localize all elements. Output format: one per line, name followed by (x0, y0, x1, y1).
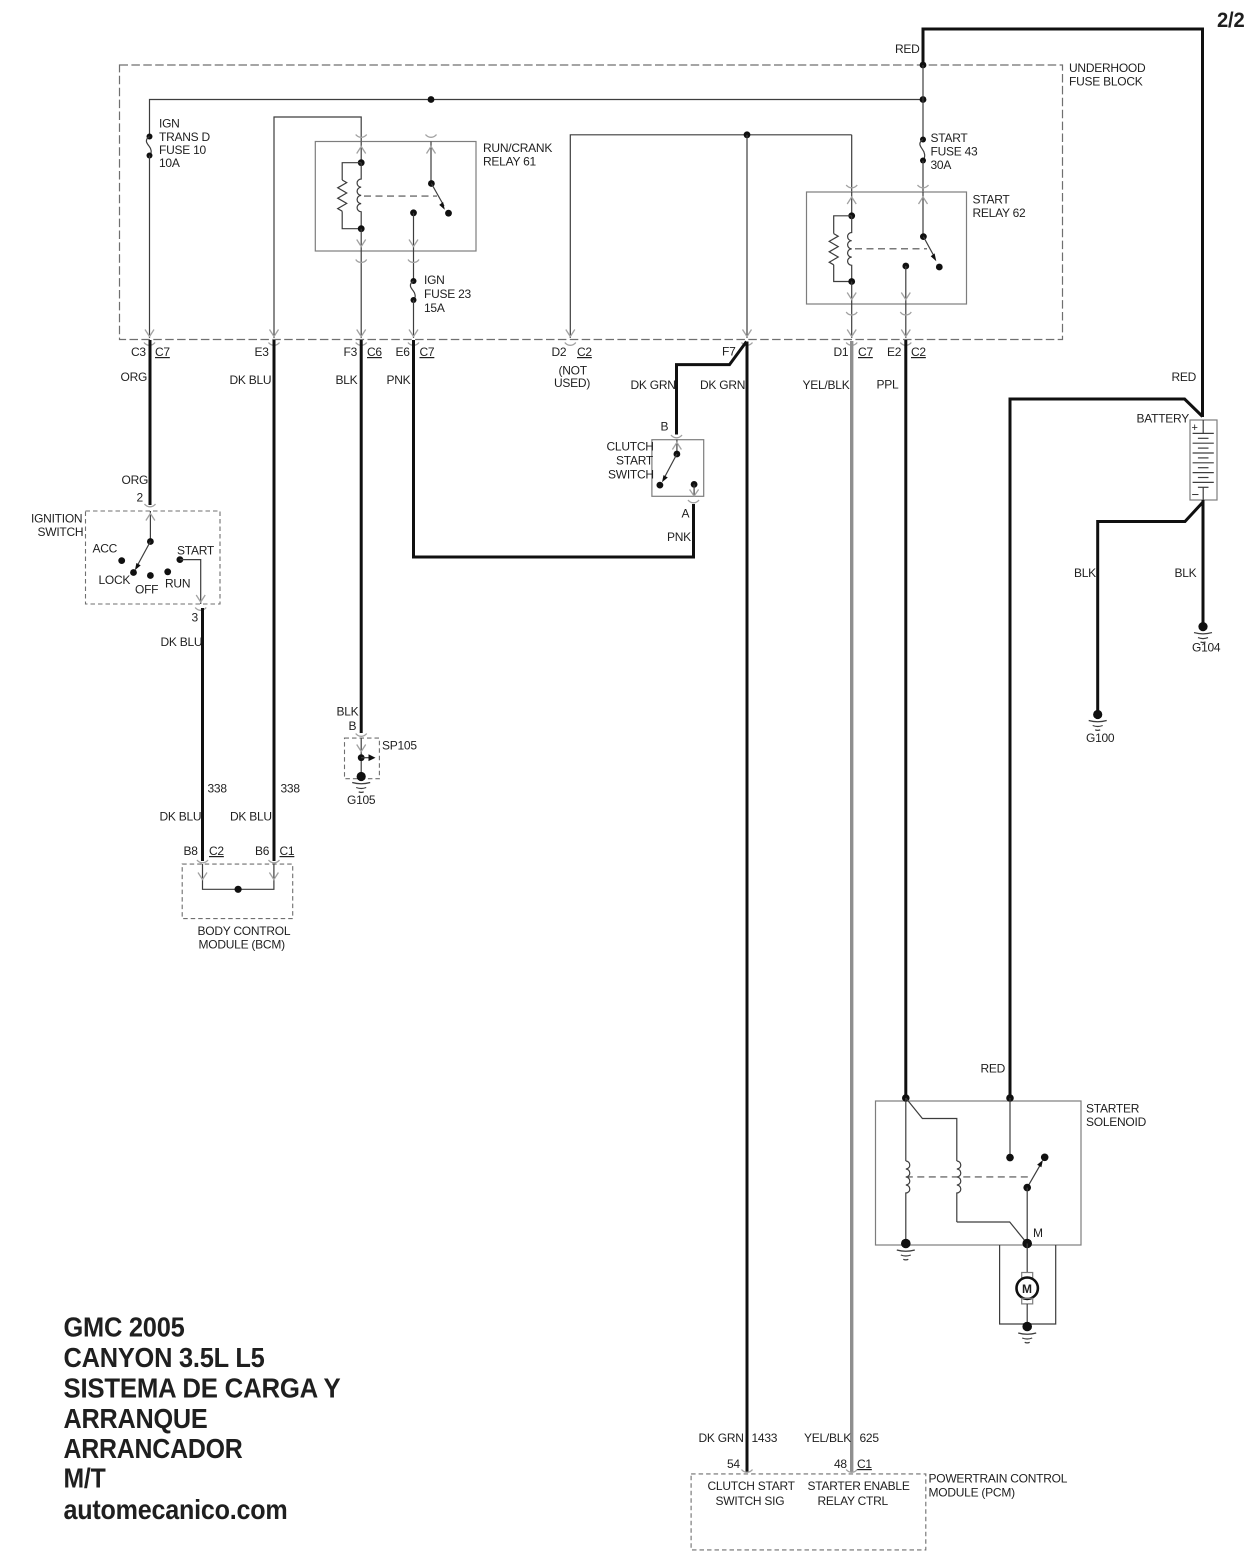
wire ORG from pin C3 to ignition switch (149, 340, 152, 505)
svg-text:2/2: 2/2 (1217, 9, 1245, 32)
svg-text:USED): USED) (554, 376, 590, 390)
wire F7 pin stub (inside box) (746, 135, 748, 338)
clutch switch common wire with up chevron (672, 440, 681, 454)
wire E3 pin up and over to relay coil (274, 117, 361, 338)
solenoid arm to M terminal wire (1026, 1188, 1028, 1244)
wire START contact to pin 3 with down chevron (180, 560, 205, 604)
svg-text:C3: C3 (131, 345, 146, 359)
svg-text:DK GRN: DK GRN (631, 378, 676, 392)
svg-text:START: START (931, 131, 969, 145)
label BLK (G100 branch) (1074, 566, 1096, 580)
svg-text:OFF: OFF (135, 583, 158, 597)
svg-text:C2: C2 (577, 345, 592, 359)
label circuit 625 (860, 1431, 880, 1445)
svg-text:FUSE 43: FUSE 43 (931, 145, 979, 159)
relay62 switch output to box bottom (905, 266, 907, 304)
relay62 coil pin wire (top) (851, 192, 853, 216)
svg-text:DK BLU: DK BLU (230, 810, 272, 824)
label circuit 1433 (752, 1431, 778, 1445)
relay61 coil bottom junction (358, 225, 365, 232)
svg-text:DK GRN: DK GRN (700, 378, 745, 392)
solenoid pull-in winding (957, 1161, 961, 1222)
SP105 junction (358, 754, 365, 761)
svg-text:RELAY CTRL: RELAY CTRL (818, 1494, 889, 1508)
svg-text:+: + (1192, 422, 1198, 434)
svg-text:IGN: IGN (159, 117, 180, 131)
relay62 switch arm with arrowhead (923, 237, 936, 262)
collar at SP105 pin B (356, 734, 367, 737)
wire relay61 coil bottom to pin F3 (360, 251, 362, 338)
junction F7 tap on D2 branch (744, 131, 751, 138)
label PCM pin 54 (727, 1457, 740, 1471)
svg-text:F3: F3 (344, 345, 358, 359)
svg-text:DK BLU: DK BLU (230, 373, 272, 387)
ignition switch dashed box (86, 511, 221, 604)
svg-text:PNK: PNK (387, 373, 411, 387)
ignition switch contact OFF (147, 572, 154, 579)
label UNDERHOOD FUSE BLOCK (1069, 61, 1146, 89)
fuse F23 IGN FUSE 23 15A (410, 278, 416, 303)
pin labels at fuse block bottom (131, 345, 926, 360)
relay62 resistor branch (829, 216, 852, 282)
relay62 coil to box bottom (851, 282, 853, 305)
underhood fuse block dashed box (120, 65, 1063, 340)
relay61 switch pivot (428, 180, 435, 187)
wire RED down to start fuse 43 (922, 65, 924, 139)
label G100 (1086, 731, 1115, 745)
svg-text:PNK: PNK (667, 530, 691, 544)
svg-text:MODULE (PCM): MODULE (PCM) (929, 1486, 1016, 1500)
label fuse 43 (931, 131, 979, 172)
label G104 (1192, 641, 1221, 655)
ground G104 (1194, 622, 1212, 643)
chevrons down inside relay61 (357, 240, 418, 247)
svg-text:G100: G100 (1086, 731, 1115, 745)
ground at starter motor (1018, 1322, 1036, 1343)
label CLUTCH START SWITCH SIG (708, 1479, 796, 1508)
label M terminal (1033, 1226, 1043, 1240)
ignition switch contact LOCK (130, 569, 137, 576)
clutch switch left contact (657, 482, 664, 489)
svg-text:FUSE 10: FUSE 10 (159, 143, 207, 157)
relay61 switch output contact (410, 209, 417, 216)
svg-text:CLUTCH: CLUTCH (607, 440, 654, 454)
svg-text:BODY CONTROL: BODY CONTROL (198, 924, 291, 938)
battery (1190, 420, 1217, 502)
svg-text:FUSE BLOCK: FUSE BLOCK (1069, 75, 1143, 89)
label DK GRN (at PCM) (699, 1431, 744, 1445)
clutch switch arm with arrowhead (662, 454, 677, 482)
svg-text:RED: RED (1172, 370, 1197, 384)
wire RED battery positive branch to solenoid (1010, 399, 1203, 1098)
solenoid pull-in winding feed (906, 1098, 957, 1161)
svg-text:B: B (349, 719, 357, 733)
clutch start switch box (652, 440, 704, 497)
wire D2 branch (not used) (570, 135, 851, 338)
svg-text:C1: C1 (280, 844, 295, 858)
svg-text:ARRANQUE: ARRANQUE (64, 1403, 208, 1434)
svg-text:BLK: BLK (337, 705, 359, 719)
ground G105 (352, 772, 370, 793)
relay62 switch output contact (902, 263, 909, 270)
svg-text:BLK: BLK (336, 373, 358, 387)
svg-text:ORG: ORG (122, 473, 149, 487)
relay61 coil to box bottom (360, 229, 362, 251)
fuse F10 IGN TRANS D FUSE 10 10A (146, 134, 152, 159)
label PCM pin 48 (834, 1457, 847, 1471)
relay62 actuation dashed link (855, 248, 927, 250)
wire PNK pin E6 to clutch start switch A (414, 340, 694, 557)
solenoid B contact wire (1009, 1098, 1011, 1158)
svg-text:G104: G104 (1192, 641, 1221, 655)
wire BLK pin F3 to splice SP105 (360, 340, 363, 733)
collar at ignition switch pin 3 (195, 608, 206, 611)
svg-text:BATTERY: BATTERY (1137, 412, 1190, 426)
svg-text:E2: E2 (887, 345, 902, 359)
svg-text:ACC: ACC (93, 542, 118, 556)
svg-text:YEL/BLK: YEL/BLK (804, 1431, 851, 1445)
collars below relay61 (356, 260, 419, 263)
label RED (above solenoid) (981, 1062, 1006, 1076)
svg-text:B6: B6 (255, 844, 270, 858)
svg-text:E3: E3 (255, 345, 270, 359)
svg-text:IGNITION: IGNITION (31, 512, 82, 526)
svg-text:SWITCH SIG: SWITCH SIG (716, 1494, 785, 1508)
wire relay62 output to pin E2 (905, 304, 907, 338)
label DK BLU (below ignition switch) (161, 635, 203, 649)
svg-text:A: A (682, 507, 690, 521)
relay61 switch common pin wire (430, 142, 432, 184)
wire fuse23 to pin E6 (413, 300, 415, 338)
svg-text:338: 338 (281, 782, 301, 796)
svg-text:C7: C7 (858, 345, 873, 359)
chevrons down inside relay62 (847, 293, 910, 300)
svg-text:DK BLU: DK BLU (161, 635, 203, 649)
label PCM connector C1 (857, 1457, 872, 1471)
wire DK GRN pin F7 to PCM pin 54 (746, 342, 749, 1473)
relay62 switch arm end contact (936, 264, 943, 271)
svg-text:1433: 1433 (752, 1431, 778, 1445)
svg-text:STARTER ENABLE: STARTER ENABLE (808, 1479, 910, 1493)
relay62 switch pivot (920, 233, 927, 240)
label BODY CONTROL MODULE (BCM) (198, 924, 291, 952)
relay61 resistor branch (338, 163, 362, 229)
svg-text:PPL: PPL (877, 378, 900, 392)
solenoid pull-in winding to M terminal (957, 1222, 1027, 1244)
svg-text:G105: G105 (347, 793, 376, 807)
solenoid hold-in winding (906, 1161, 910, 1244)
svg-text:GMC 2005: GMC 2005 (64, 1312, 185, 1343)
label BLK (above SP105) (337, 705, 359, 719)
svg-text:C2: C2 (911, 345, 926, 359)
label pin 2 (137, 491, 144, 505)
label G105 (347, 793, 376, 807)
ignition switch arm to LOCK with arrowhead (135, 542, 151, 571)
relay62 switch common pin wire (922, 192, 924, 237)
label ORG (at ignition switch) (122, 473, 149, 487)
label pin B (SP105) (349, 719, 357, 733)
wire battery negative branch to G100 (1098, 502, 1203, 711)
starter solenoid box (876, 1101, 1082, 1245)
wire colour labels (121, 370, 1197, 392)
svg-text:C6: C6 (367, 345, 382, 359)
svg-text:SP105: SP105 (382, 739, 417, 753)
label DK BLU (right of BCM) (230, 810, 272, 824)
svg-text:2: 2 (137, 491, 144, 505)
collars at relay61 top pins (356, 135, 437, 138)
page number 2/2 (1217, 9, 1245, 32)
svg-text:RUN/CRANK: RUN/CRANK (483, 141, 552, 155)
svg-text:RED: RED (895, 42, 920, 56)
label BLK (G104 branch) (1175, 566, 1197, 580)
svg-text:3: 3 (192, 611, 199, 625)
SP105 branch arrow right (361, 754, 375, 761)
pin labels B8 C2 / B6 C1 (184, 844, 295, 858)
collar at clutch switch pin A (688, 500, 699, 503)
svg-text:START: START (616, 454, 654, 468)
powertrain control module dashed box (691, 1474, 926, 1550)
wire M terminal to motor (1026, 1244, 1028, 1273)
label BATTERY (1137, 412, 1190, 426)
svg-text:D2: D2 (552, 345, 567, 359)
chevrons up inside relay62 (847, 197, 927, 204)
svg-text:MODULE (BCM): MODULE (BCM) (199, 938, 286, 952)
chevrons up inside relay61 (357, 147, 436, 154)
label PNK (clutch switch) (667, 530, 691, 544)
junction M terminal (1022, 1239, 1032, 1249)
collars at PCM pins (742, 1470, 858, 1473)
relay62 coil top junction (848, 212, 855, 219)
chevron arrows at fuse block bottom border (145, 330, 910, 337)
ignition switch pivot (147, 538, 154, 545)
body control module dashed box (182, 864, 293, 919)
svg-text:START: START (177, 544, 215, 558)
relay62 coil winding (848, 216, 852, 282)
svg-text:M: M (1022, 1282, 1032, 1296)
label STARTER SOLENOID (1086, 1102, 1147, 1130)
splice SP105 dashed box (345, 738, 380, 779)
run/crank relay 61 box (315, 142, 476, 252)
label DK BLU (left of BCM) (160, 810, 202, 824)
wire relay61 output to fuse 23 (413, 251, 415, 281)
svg-text:ORG: ORG (121, 370, 148, 384)
svg-text:E6: E6 (396, 345, 411, 359)
label SP105 (382, 739, 417, 753)
svg-text:M: M (1033, 1226, 1043, 1240)
svg-text:YEL/BLK: YEL/BLK (803, 378, 850, 392)
ignition switch common wire with up chevron (146, 511, 155, 542)
ground at solenoid case (897, 1239, 915, 1260)
junction RED wire at fuse block border (920, 62, 927, 69)
label (NOT USED) (554, 364, 590, 391)
svg-text:TRANS D: TRANS D (159, 130, 211, 144)
starter motor M (1016, 1273, 1037, 1304)
svg-text:C1: C1 (857, 1457, 872, 1471)
clutch switch pivot (674, 451, 681, 458)
label circuit 338 (left) (208, 782, 228, 796)
svg-text:UNDERHOOD: UNDERHOOD (1069, 61, 1146, 75)
svg-text:M/T: M/T (64, 1463, 106, 1494)
svg-text:10A: 10A (159, 156, 180, 170)
label YEL/BLK (at PCM) (804, 1431, 851, 1445)
solenoid hold-in winding wire (905, 1098, 907, 1161)
svg-text:STARTER: STARTER (1086, 1102, 1140, 1116)
svg-text:48: 48 (834, 1457, 847, 1471)
svg-text:30A: 30A (931, 158, 952, 172)
wire start relay coil feed down (851, 135, 853, 192)
relay61 switch arm end contact (445, 210, 452, 217)
fuse F43 START FUSE 43 30A (920, 137, 926, 164)
solenoid switch arm pivot contact (1023, 1184, 1031, 1192)
svg-text:BLK: BLK (1074, 566, 1096, 580)
svg-text:C7: C7 (155, 345, 170, 359)
clutch switch output to box bottom (690, 484, 699, 496)
svg-text:CLUTCH START: CLUTCH START (708, 1479, 796, 1493)
solenoid B contact (1006, 1154, 1014, 1162)
svg-text:RELAY 62: RELAY 62 (973, 206, 1027, 220)
ground G100 (1089, 710, 1107, 731)
starter motor housing lines (1000, 1245, 1056, 1324)
collars at BCM pins (197, 860, 280, 863)
wire fuse43 to start relay switch (922, 161, 924, 193)
svg-text:CANYON 3.5L L5: CANYON 3.5L L5 (64, 1342, 265, 1373)
label B (clutch switch) (661, 420, 669, 434)
svg-text:−: − (1192, 487, 1199, 502)
svg-text:IGN: IGN (424, 273, 445, 287)
label circuit 338 (right) (281, 782, 301, 796)
wire PPL pin E2 to starter solenoid (904, 340, 907, 1098)
svg-text:B8: B8 (184, 844, 199, 858)
svg-text:SWITCH: SWITCH (38, 525, 84, 539)
relay62 coil bottom junction (848, 278, 855, 285)
svg-text:SOLENOID: SOLENOID (1086, 1115, 1147, 1129)
relay61 actuation dashed link (364, 195, 437, 197)
label fuse 10 (159, 117, 211, 171)
wire relay62 coil bottom to pin D1 (851, 304, 853, 338)
clutch switch output contact A (691, 481, 698, 488)
svg-text:D1: D1 (834, 345, 849, 359)
label POWERTRAIN CONTROL MODULE (PCM) (929, 1472, 1068, 1500)
svg-text:SWITCH: SWITCH (608, 468, 654, 482)
svg-text:C7: C7 (420, 345, 435, 359)
junction bus / start fuse feed (920, 96, 927, 103)
svg-text:DK GRN: DK GRN (699, 1431, 744, 1445)
relay61 switch arm with arrowhead (431, 184, 444, 210)
relay61 coil pin wire (top) (360, 142, 362, 163)
label IGNITION SWITCH (31, 512, 83, 540)
relay61 coil winding (357, 163, 361, 229)
wire YEL/BLK pin D1 to PCM pin 48 (850, 341, 853, 1472)
wire DK BLU ignition to BCM pin B8 (201, 608, 204, 861)
junction bus / run-crank relay switch feed (428, 96, 435, 103)
solenoid switch upper contact (1041, 1154, 1049, 1162)
label A (clutch switch) (682, 507, 690, 521)
svg-text:START: START (973, 193, 1011, 207)
collars at relay62 top pins (846, 185, 928, 188)
label RUN/CRANK RELAY 61 (483, 141, 552, 169)
svg-text:RELAY 61: RELAY 61 (483, 155, 537, 169)
ignition switch contact ACC (118, 557, 125, 564)
label fuse 23 (424, 273, 472, 315)
collar at ignition switch pin 2 (145, 504, 156, 507)
wire motor to ground (1026, 1304, 1028, 1324)
ignition switch contact START (177, 556, 184, 563)
svg-text:338: 338 (208, 782, 228, 796)
collars below relay62 (846, 312, 911, 315)
relay61 coil top junction (358, 159, 365, 166)
wire DK BLU pin E3 to BCM pin B6 (273, 340, 276, 861)
ignition switch position labels (93, 542, 215, 597)
svg-text:15A: 15A (424, 301, 445, 315)
svg-text:FUSE 23: FUSE 23 (424, 287, 472, 301)
label STARTER ENABLE RELAY CTRL (808, 1479, 910, 1508)
SP105 internal wire with down chevron (357, 738, 366, 776)
relay61 switch output to box bottom (413, 213, 415, 251)
label RED (top) (895, 42, 920, 56)
label pin 3 (192, 611, 199, 625)
start relay 62 box (807, 192, 967, 304)
solenoid actuation dashed link (906, 1176, 1032, 1178)
collars below fuse block border (144, 343, 911, 346)
svg-text:625: 625 (860, 1431, 880, 1445)
svg-text:POWERTRAIN CONTROL: POWERTRAIN CONTROL (929, 1472, 1068, 1486)
svg-text:54: 54 (727, 1457, 740, 1471)
svg-text:LOCK: LOCK (99, 573, 131, 587)
svg-text:RUN: RUN (165, 577, 190, 591)
wire battery negative to G104 (1202, 500, 1205, 623)
wire fuse10 to pin C3 (149, 156, 151, 339)
junction PPL wire at solenoid S terminal (902, 1094, 910, 1102)
svg-text:C2: C2 (209, 844, 224, 858)
svg-text:BLK: BLK (1175, 566, 1197, 580)
svg-text:SISTEMA DE CARGA Y: SISTEMA DE CARGA Y (64, 1372, 342, 1403)
ignition switch contact RUN (164, 568, 171, 575)
title block (64, 1312, 342, 1525)
wire RED battery feed (top) (923, 29, 1203, 417)
svg-text:RED: RED (981, 1062, 1006, 1076)
solenoid switch arm with arrowhead (1027, 1160, 1043, 1188)
svg-text:ARRANCADOR: ARRANCADOR (64, 1433, 243, 1464)
wire bus from fuse10 to start fuse (inside fuse block) (150, 100, 924, 137)
svg-text:automecanico.com: automecanico.com (64, 1494, 288, 1525)
collar at clutch switch pin B (671, 435, 682, 438)
svg-text:B: B (661, 420, 669, 434)
label START RELAY 62 (973, 193, 1027, 221)
svg-text:DK BLU: DK BLU (160, 810, 202, 824)
BCM internal junction (235, 886, 242, 893)
junction RED wire at solenoid B terminal (1006, 1094, 1014, 1102)
BCM internal link wire (198, 864, 278, 889)
wire DK GRN F7 to clutch start switch B (677, 342, 747, 435)
label CLUTCH START SWITCH (607, 440, 654, 482)
